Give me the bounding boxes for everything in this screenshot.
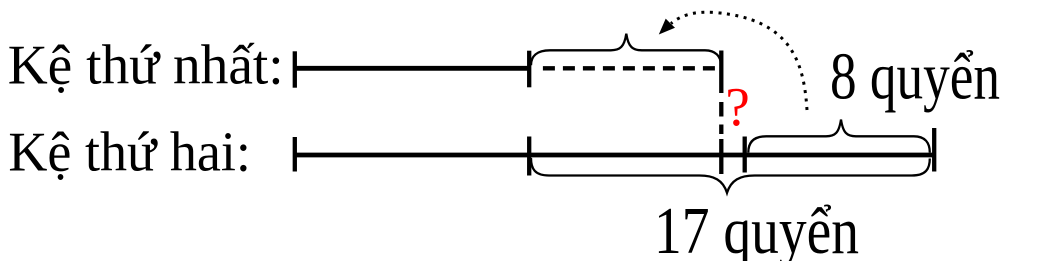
svg-text:8 quyển: 8 quyển xyxy=(830,40,1000,114)
bar 1 left tick xyxy=(293,51,297,87)
bar 2 line xyxy=(295,153,934,158)
svg-text:17 quyển: 17 quyển xyxy=(654,194,859,261)
brace under middle+right of bar 2 xyxy=(531,158,930,193)
bar 1 right tick (top of vertical dashed drop) xyxy=(719,51,723,94)
bar 1 solid segment xyxy=(295,66,529,71)
svg-text:Kệ thứ hai:: Kệ thứ hai: xyxy=(8,122,251,184)
bar 1 dashed segment xyxy=(543,66,718,70)
arrowhead of dotted arrow xyxy=(659,19,675,35)
bar 1 middle tick xyxy=(527,51,531,88)
bar 2 right end tick xyxy=(932,128,936,172)
brace over dashed segment of bar 1 xyxy=(531,34,721,65)
bar 2 tick after drop xyxy=(743,137,747,173)
svg-text:Kệ thứ nhất:: Kệ thứ nhất: xyxy=(8,35,284,97)
bar 2 left tick xyxy=(293,137,297,172)
bar 2 second tick xyxy=(527,137,531,176)
svg-text:?: ? xyxy=(725,76,749,137)
vertical dashed drop dash 1 xyxy=(719,102,723,117)
dotted curved arrow xyxy=(671,12,807,110)
vertical dashed drop dash 2 xyxy=(719,125,723,135)
brace over right segment of bar 2 xyxy=(748,120,930,153)
tick on bar 2 under dashed drop xyxy=(719,139,723,174)
